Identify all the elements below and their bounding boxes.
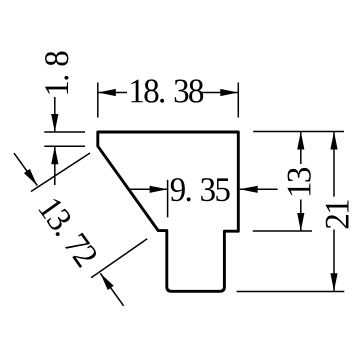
dim 13.72 extension line lower: [91, 239, 147, 278]
dim 13 text: [288, 168, 311, 195]
dim 13.72 extension line upper: [31, 153, 90, 192]
dim 18.38 left extension line: [97, 83, 99, 118]
dim 21 text: [326, 200, 349, 228]
dim 18.38 right extension line: [237, 83, 239, 118]
dim 21 down arrow: [330, 273, 337, 291]
dim 18.38 left arrow: [98, 89, 116, 96]
dim 9.35 extension tick: [167, 180, 169, 218]
dim 18.38 right arrow: [220, 89, 238, 96]
dim 1.8 down arrow: [51, 114, 58, 132]
dim 9.35 left arrow: [150, 186, 168, 193]
dim 9.35 right arrow: [240, 186, 258, 193]
dim 13 up arrow: [297, 132, 304, 150]
dim 13 bottom extension line: [253, 230, 312, 232]
dim 1.8 lower extension line: [44, 145, 85, 147]
dim 21 up arrow: [330, 132, 337, 150]
dim 9.35 text: [171, 178, 230, 201]
dim 13.72 text: [38, 197, 98, 269]
dim 18.38 text: [131, 79, 203, 102]
dim 13 down arrow: [297, 213, 304, 231]
part outline (profile cross-section): [98, 132, 239, 291]
dim 1.8 text: [45, 52, 68, 94]
dim 21 bottom extension line: [237, 291, 345, 293]
dim 13.72 lower arrow: [100, 273, 113, 290]
dim 1.8 up arrow: [51, 146, 58, 164]
dim 13 top extension line: [253, 131, 344, 133]
dim 1.8 upper extension line: [44, 131, 85, 133]
dim 13.72 upper arrow: [24, 169, 37, 186]
